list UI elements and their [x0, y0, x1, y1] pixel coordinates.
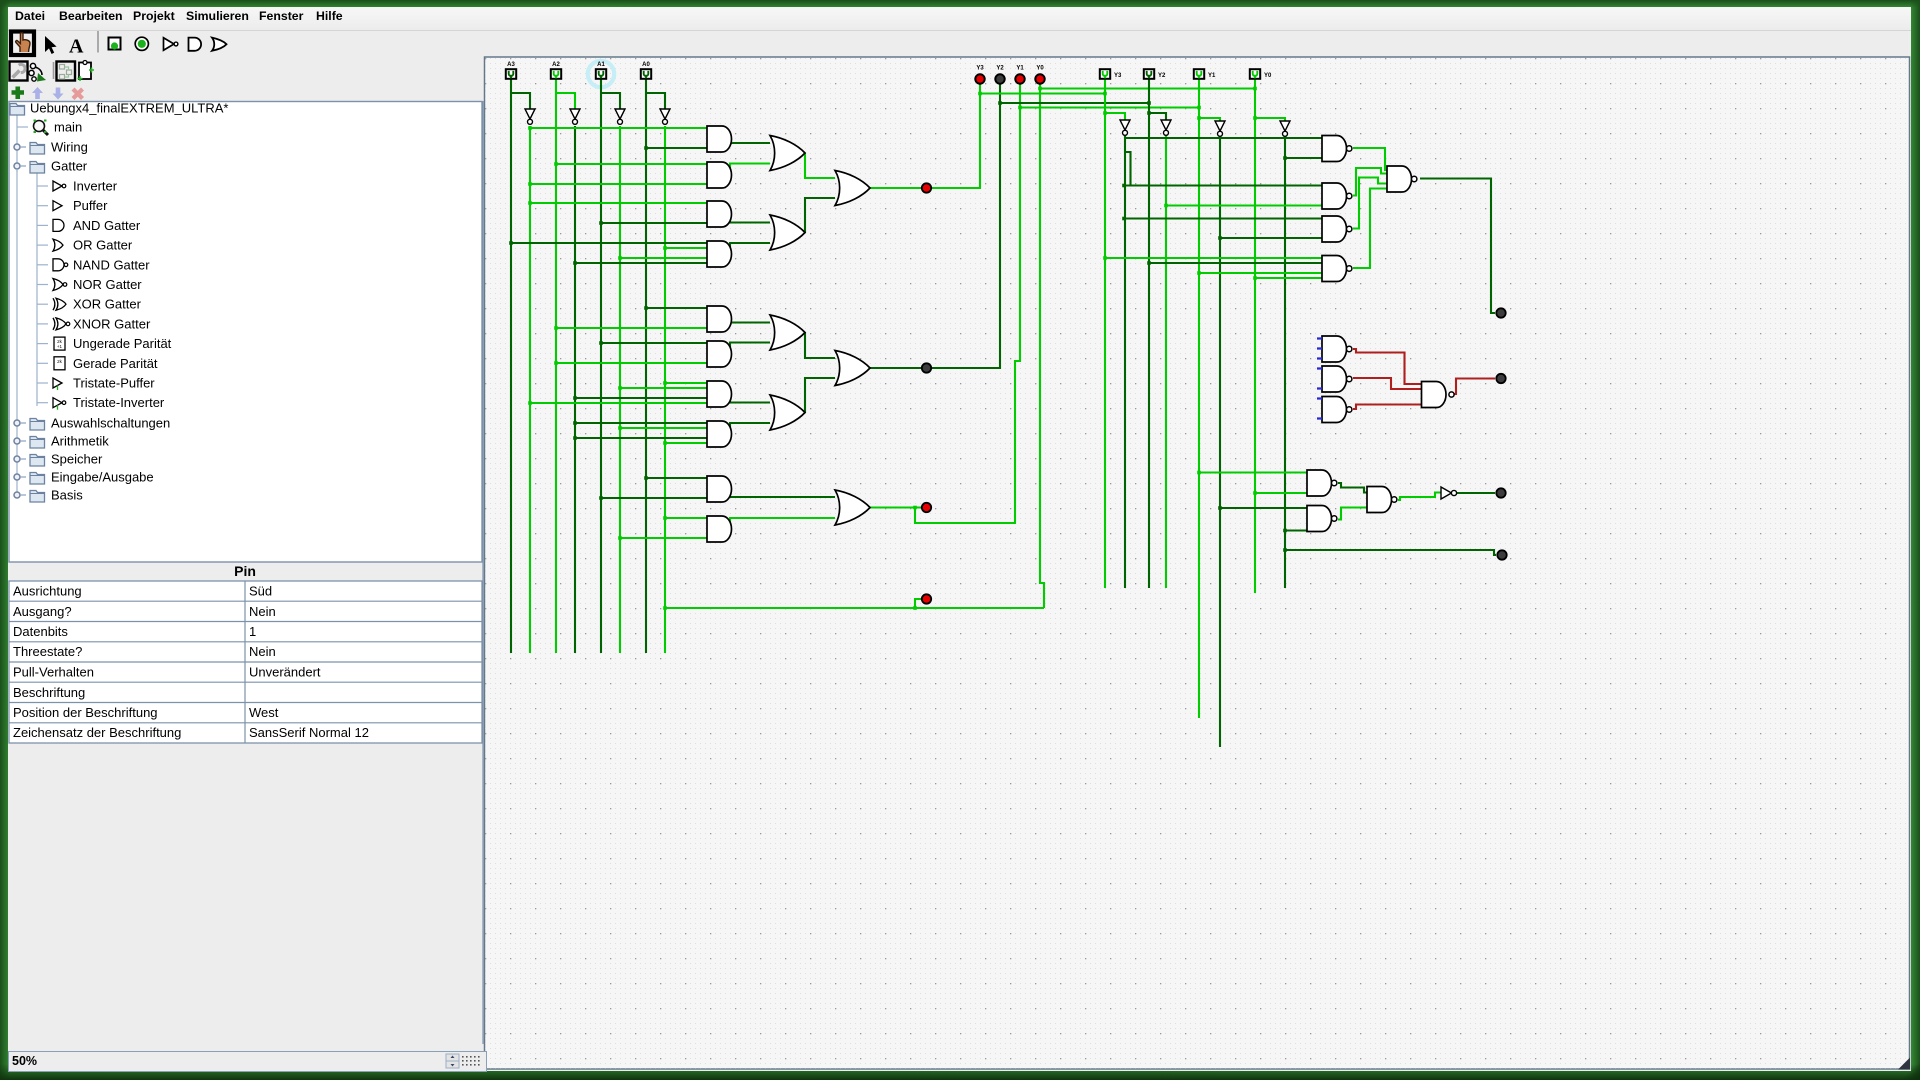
- svg-text:Arithmetik: Arithmetik: [51, 434, 109, 449]
- wire inverter out to dot: [1457, 492, 1495, 494]
- svg-text:A1: A1: [597, 62, 605, 68]
- wire /Y3 to NAND2.1: [1124, 184, 1322, 186]
- wire NANDr4 out to dot: [1454, 379, 1495, 395]
- inverter /A1: [615, 109, 625, 119]
- wire Y2 to inverter: [1149, 113, 1166, 120]
- wire NANDg out to inverter: [1398, 493, 1441, 501]
- wire AND2 out to OR1.2: [730, 164, 770, 175]
- wire NANDr1 out: [1353, 349, 1422, 384]
- inverter /A0: [660, 109, 670, 119]
- wire /A1 column: [619, 126, 621, 653]
- grip dots: [462, 1056, 480, 1066]
- NAND gate R1 (inputs open): [1322, 336, 1347, 362]
- wire /A3 to AND2.2: [530, 183, 707, 185]
- wire Y3 to NAND4.1: [1105, 257, 1322, 259]
- inverter /Y1: [1215, 121, 1225, 131]
- wire Y0 to inverter: [1255, 118, 1285, 121]
- input pin Y2 right: [1144, 69, 1154, 79]
- input pin Y3 right: [1100, 69, 1110, 79]
- wire /Y0 to bottom dot: [1285, 550, 1496, 555]
- svg-text:Y0: Y0: [1036, 66, 1044, 72]
- open input stubs R2: [1317, 369, 1322, 389]
- svg-text:Eingabe/Ausgabe: Eingabe/Ausgabe: [51, 470, 154, 485]
- toolbar separator2: [53, 62, 55, 79]
- AND gate AND1: [707, 126, 732, 152]
- tree row Inverter: [37, 185, 48, 187]
- wire /A2 to AND8.3: [575, 437, 707, 439]
- wire Y3 feed to pin: [980, 92, 1105, 94]
- tool input pin: [109, 38, 121, 50]
- wire A1 to AND9.2: [601, 497, 707, 499]
- wire /A1 to AND7.2: [620, 387, 707, 389]
- svg-text:Nein: Nein: [249, 644, 276, 659]
- NAND gate U2 (4-in): [1387, 166, 1412, 192]
- wire A0 to AND5.1: [646, 307, 707, 309]
- tool output pin: [135, 37, 148, 50]
- AND gate AND4 (4-in): [707, 241, 732, 267]
- wire Y2 pin column: [1148, 79, 1150, 588]
- OR gate OR5: [770, 395, 805, 430]
- svg-text:A3: A3: [507, 62, 515, 68]
- wire A3 column: [510, 79, 512, 653]
- output dot Y2n gray: [922, 363, 931, 372]
- NAND gate Ng: [1367, 487, 1392, 513]
- tree row OR Gatter: [37, 244, 48, 246]
- wire /Y2 column: [1165, 136, 1167, 588]
- tree row project: [10, 104, 25, 116]
- output LED Y3: [975, 74, 984, 83]
- tree row Tristate-Inverter: [37, 402, 48, 404]
- wire A2 to AND5.2: [556, 327, 707, 329]
- wire /Y3 column: [1124, 136, 1126, 588]
- svg-text:Zeichensatz der Beschriftung: Zeichensatz der Beschriftung: [13, 725, 181, 740]
- output dot Y0n red: [922, 594, 931, 603]
- svg-text:OR Gatter: OR Gatter: [73, 238, 133, 253]
- NAND gate N3: [1322, 216, 1347, 242]
- tree row Puffer: [37, 205, 48, 207]
- toolbar row 3: [12, 87, 83, 100]
- OR gate OR7: [835, 490, 870, 525]
- wire /A0 column: [664, 126, 666, 653]
- tree row Ungerade Parit&#228;t: [37, 343, 48, 345]
- wire /A0 to AND8.4: [665, 442, 707, 444]
- svg-text:Threestate?: Threestate?: [13, 644, 82, 659]
- wire NAND4 out to U2.4: [1353, 189, 1387, 269]
- tree row XOR Gatter: [37, 303, 48, 305]
- NAND gate R3 (inputs open): [1322, 397, 1346, 423]
- tree row Eingabe/Ausgabe: [14, 474, 20, 480]
- wire AND9 out to OR7.1: [730, 488, 835, 497]
- tree connector lines: [16, 112, 18, 495]
- toolbar separator: [97, 31, 99, 53]
- wire /Y3 to NAND1.1: [1125, 137, 1322, 139]
- spinner buttons: [446, 1054, 459, 1061]
- tool OR: [212, 38, 227, 51]
- wire NANDr2 out: [1353, 378, 1422, 389]
- button down: [53, 88, 64, 100]
- properties table: [9, 581, 482, 743]
- wire /A0 to AND10.1: [665, 517, 707, 519]
- inverter /Y3: [1120, 120, 1130, 130]
- wire Y0 net to LED: [1040, 85, 1044, 609]
- wire AND1 out to OR1.1: [730, 138, 770, 143]
- svg-text:+1: +1: [57, 344, 63, 349]
- svg-text:A0: A0: [642, 62, 650, 68]
- svg-text:Speicher: Speicher: [51, 452, 103, 467]
- tree row Speicher: [14, 456, 20, 462]
- inverter east: [1441, 487, 1452, 499]
- svg-text:Wiring: Wiring: [51, 140, 88, 155]
- tree row NAND Gatter: [37, 264, 48, 266]
- tree row Arithmetik: [14, 438, 20, 444]
- wire /Y1 to NANDf.1: [1220, 507, 1307, 509]
- wire /Y1 to NAND3.2: [1220, 237, 1322, 239]
- wire Y2 feed to pin: [1000, 102, 1149, 104]
- tree row main: [17, 126, 28, 128]
- svg-text:Nein: Nein: [249, 604, 276, 619]
- output LED Y0: [1035, 74, 1044, 83]
- svg-text:NOR Gatter: NOR Gatter: [73, 277, 142, 292]
- wire NANDf out to NANDg.2: [1338, 508, 1367, 520]
- wire /Y1 column: [1219, 136, 1221, 747]
- wire NAND1 out to U2.1: [1353, 148, 1387, 170]
- svg-text:Beschriftung: Beschriftung: [13, 685, 85, 700]
- wire A0 to AND1.2: [646, 147, 707, 149]
- wire /A1 to AND10.2: [620, 537, 707, 539]
- NAND gate R4: [1422, 382, 1447, 408]
- wire Y2 net to LED: [869, 85, 1000, 369]
- resize grip: [1898, 1058, 1910, 1070]
- OR gate OR3: [835, 171, 870, 206]
- wire Y3 to inverter: [1105, 113, 1125, 120]
- svg-text:Position der Beschriftung: Position der Beschriftung: [13, 705, 158, 720]
- wire A1 column: [600, 79, 602, 653]
- AND gate AND10: [707, 516, 732, 542]
- NAND gate N4 (4-in): [1322, 256, 1347, 282]
- grid dots minor: [484, 58, 1910, 1069]
- NAND gate Ne: [1307, 470, 1332, 496]
- wire AND4 out to OR2.2: [730, 243, 770, 254]
- AND gate AND5: [707, 306, 732, 332]
- wire Y2 to NAND4.2: [1149, 262, 1322, 264]
- tool button wrench (boxed): [10, 62, 28, 81]
- output dot Y1n red: [922, 503, 931, 512]
- svg-text:Y3: Y3: [1114, 73, 1122, 79]
- svg-text:West: West: [249, 705, 279, 720]
- wire Y0 probe stub: [915, 599, 921, 608]
- AND gate AND8 (4-in): [707, 421, 732, 447]
- status bar: [8, 1051, 487, 1072]
- wire OR4 out to OR6.1: [805, 333, 835, 359]
- input pin A1: [596, 69, 606, 79]
- toolbar row 2: [10, 61, 95, 82]
- wire /A3 to AND1.1: [530, 127, 707, 129]
- NAND gate N1: [1322, 136, 1347, 162]
- svg-text:1: 1: [249, 624, 256, 639]
- svg-text:Y0: Y0: [1264, 73, 1272, 79]
- open input stubs R3: [1317, 399, 1322, 419]
- output dot U2 result gray: [1496, 308, 1505, 317]
- wire OR1 out to OR3.1: [805, 153, 835, 178]
- svg-text:Gatter: Gatter: [51, 159, 88, 174]
- AND gate AND2: [707, 162, 732, 188]
- input pin A2: [551, 69, 561, 79]
- OR gate OR2: [770, 215, 805, 250]
- wire Y1 to NANDe.1: [1199, 471, 1307, 473]
- canvas panel: [485, 57, 1910, 1069]
- tree row NOR Gatter: [37, 284, 48, 286]
- wire AND10 out to OR7.2: [730, 518, 835, 528]
- tool AND: [189, 38, 202, 51]
- svg-text:Tristate-Puffer: Tristate-Puffer: [73, 376, 155, 391]
- svg-text:Datenbits: Datenbits: [13, 624, 68, 639]
- tree row Wiring: [14, 144, 20, 150]
- wire NANDe out to NANDg.1: [1338, 483, 1367, 493]
- wire /A2 column: [574, 126, 576, 653]
- tree row Basis: [14, 492, 20, 498]
- svg-text:Puffer: Puffer: [73, 198, 108, 213]
- wire Y1 to inverter: [1199, 118, 1220, 121]
- wire A2 to inverter: [556, 93, 575, 109]
- wire AND7 out to OR5.1: [730, 393, 770, 403]
- wire /A3 column: [529, 126, 531, 653]
- svg-text:A2: A2: [552, 62, 560, 68]
- tool button hand (selected): [11, 32, 34, 56]
- tree row AND Gatter: [37, 224, 48, 226]
- AND gate AND9: [707, 476, 732, 502]
- wire /A1 to AND4.3: [620, 257, 707, 259]
- wire NAND2 out to U2.2: [1353, 168, 1387, 196]
- svg-text:Pull-Verhalten: Pull-Verhalten: [13, 665, 94, 680]
- wire /Y0 column: [1284, 136, 1286, 588]
- OR gate OR1: [770, 136, 805, 171]
- svg-text:Y3: Y3: [976, 66, 984, 72]
- svg-text:Ausgang?: Ausgang?: [13, 604, 72, 619]
- wire A1 to AND6.1: [601, 342, 707, 344]
- svg-text:Süd: Süd: [249, 584, 272, 599]
- wire OR7 out: [869, 506, 921, 508]
- wire /A0 to AND4.2: [665, 247, 707, 249]
- svg-text:Gerade Parität: Gerade Parität: [73, 356, 158, 371]
- svg-text:Y2: Y2: [1158, 73, 1166, 79]
- wire /A3 to AND3.1: [530, 202, 707, 204]
- svg-text:NAND Gatter: NAND Gatter: [73, 257, 150, 272]
- wire A3 to inverter: [511, 93, 530, 109]
- wire A1 to AND3.2: [601, 222, 707, 224]
- tree row Tristate-Puffer: [37, 382, 48, 384]
- inverter /Y2: [1161, 120, 1171, 130]
- sidebar right border: [482, 101, 484, 1044]
- svg-text:Auswahlschaltungen: Auswahlschaltungen: [51, 416, 170, 431]
- wire /Y3 to NAND3.1: [1124, 217, 1322, 219]
- wire /A1 to AND8.2: [620, 427, 707, 429]
- wire AND8 out to OR5.2: [730, 423, 770, 433]
- AND gate AND7 (4-in): [707, 381, 732, 407]
- wire A2 to AND2.1: [556, 163, 707, 165]
- output dot green-cluster result gray: [1496, 488, 1505, 497]
- wire A0 to AND9.1: [646, 477, 707, 479]
- grid dots major: [484, 58, 1910, 1069]
- wire /A2 to AND7.3: [575, 397, 707, 399]
- button delete: [73, 89, 83, 99]
- svg-text:Ausrichtung: Ausrichtung: [13, 584, 82, 599]
- tool new embedded circuit: [79, 63, 91, 80]
- wire /A2 to AND4.4: [575, 262, 707, 264]
- svg-text:SansSerif Normal 12: SansSerif Normal 12: [249, 725, 369, 740]
- wire /Y0 to NAND1.2: [1285, 157, 1322, 159]
- svg-text:Pin: Pin: [234, 563, 256, 579]
- wire Y0 to NAND4.4: [1255, 277, 1322, 279]
- wire /Y0 to NANDf.2: [1285, 529, 1307, 531]
- tree panel: [9, 102, 482, 563]
- inverter /Y0: [1280, 121, 1290, 131]
- tool analyse: [30, 63, 35, 68]
- tree row Auswahlschaltungen: [14, 420, 20, 426]
- wire A0 to inverter: [646, 93, 665, 109]
- AND gate AND6: [707, 341, 732, 367]
- tree row Gatter: [14, 163, 20, 169]
- wire Y1 to NAND4.3: [1199, 272, 1322, 274]
- NAND gate R2 (inputs open): [1322, 366, 1347, 392]
- wire AND6 out to OR4.2: [730, 343, 770, 354]
- inverter /A2: [570, 109, 580, 119]
- output dot red-cluster result gray: [1496, 374, 1505, 383]
- wire OR5 out to OR6.2: [805, 378, 835, 413]
- tree row XNOR Gatter: [37, 323, 48, 325]
- wire Y3 pin column: [1104, 79, 1106, 588]
- open input stubs R1: [1317, 339, 1322, 359]
- wire Y0 pin column: [1254, 79, 1256, 593]
- svg-text:XNOR Gatter: XNOR Gatter: [73, 316, 151, 331]
- inverter /A3: [525, 109, 535, 119]
- svg-text:Y1: Y1: [1208, 73, 1216, 79]
- OR gate OR4: [770, 315, 805, 350]
- svg-text:Unverändert: Unverändert: [249, 665, 321, 680]
- AND gate AND3: [707, 201, 731, 227]
- svg-text:Inverter: Inverter: [73, 179, 118, 194]
- wire Y0 to NANDe.2: [1255, 492, 1307, 494]
- svg-text:Y2: Y2: [996, 66, 1004, 72]
- wire /Y2 to NAND2.2: [1166, 204, 1322, 206]
- input pin Y0 right: [1250, 69, 1260, 79]
- wire /A0 Y0 net: [665, 607, 1044, 609]
- svg-text:Tristate-Inverter: Tristate-Inverter: [73, 395, 165, 410]
- tree row Gerade Parit&#228;t: [37, 362, 48, 364]
- tool buffer: [164, 38, 175, 50]
- input pin Y1 right: [1194, 69, 1204, 79]
- NAND gate N2: [1322, 183, 1347, 209]
- svg-text:XOR Gatter: XOR Gatter: [73, 297, 142, 312]
- svg-text:Ungerade Parität: Ungerade Parität: [73, 336, 172, 351]
- output dot Y3n red: [922, 183, 931, 192]
- svg-text:AND Gatter: AND Gatter: [73, 218, 141, 233]
- wire /A0 to AND7.1: [665, 382, 707, 384]
- wire Y1 feed to pin: [1020, 106, 1199, 108]
- menu bar: [8, 7, 1911, 31]
- wire AND5 out to OR4.1: [730, 318, 770, 323]
- input pin A3: [506, 69, 516, 79]
- wire NANDr3 out: [1353, 405, 1422, 410]
- wire Y0 feed to pin: [1040, 87, 1255, 89]
- OR gate OR6: [835, 351, 870, 386]
- toolbar row 1: [11, 31, 227, 58]
- wire A0 column: [645, 79, 647, 653]
- wire A1 to inverter: [601, 93, 620, 109]
- svg-text:Uebungx4_finalEXTREM_ULTRA*: Uebungx4_finalEXTREM_ULTRA*: [30, 101, 228, 116]
- wire junction dots: [509, 87, 1287, 610]
- wire A3 to AND4.1: [511, 242, 707, 244]
- wire OR2 out to OR3.2: [805, 198, 835, 233]
- wire Y3 net to LED: [869, 85, 980, 189]
- button add: [12, 87, 25, 100]
- wire Y1 net to LED: [915, 85, 1020, 524]
- wire A2 column: [555, 79, 557, 653]
- tool button circuit (boxed): [57, 62, 76, 81]
- selection halo around pin A1: [588, 61, 614, 87]
- svg-text:2k: 2k: [57, 359, 63, 364]
- output LED Y2: [995, 74, 1004, 83]
- wire /A3 to AND7.4: [530, 402, 707, 404]
- tool button select arrow: [45, 36, 57, 54]
- svg-text:Y1: Y1: [1016, 66, 1024, 72]
- wire NAND3 out to U2.3: [1353, 178, 1387, 229]
- wire A2 to AND6.2: [556, 362, 707, 364]
- svg-text:A: A: [69, 36, 84, 58]
- svg-text:main: main: [54, 120, 82, 135]
- button up: [32, 87, 43, 99]
- svg-text:Basis: Basis: [51, 488, 83, 503]
- wire /Y3 parallel stub: [1125, 152, 1131, 186]
- input pin A0: [641, 69, 651, 79]
- wire /A2 to AND8.1: [575, 422, 707, 424]
- wire AND3 out to OR2.1: [730, 213, 770, 223]
- wire Y1 pin column: [1198, 79, 1200, 718]
- output dot bottom gray: [1497, 550, 1506, 559]
- wire U2 out to output dot: [1420, 179, 1495, 314]
- NAND gate Nf: [1307, 506, 1332, 532]
- output LED Y1: [1015, 74, 1024, 83]
